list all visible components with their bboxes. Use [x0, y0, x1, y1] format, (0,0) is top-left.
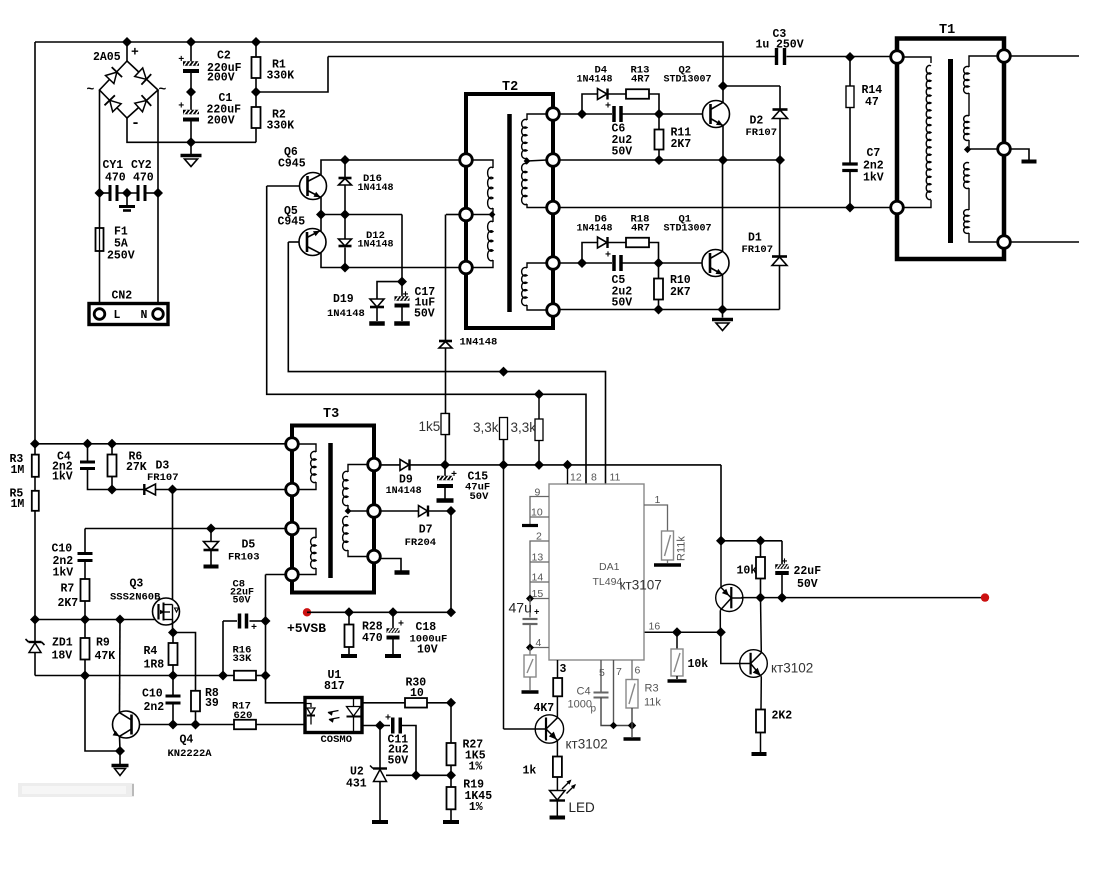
svg-text:50V: 50V: [233, 596, 251, 607]
svg-text:1N4148: 1N4148: [358, 240, 394, 251]
svg-text:D3: D3: [156, 460, 170, 473]
svg-text:+: +: [178, 102, 184, 113]
svg-text:4R7: 4R7: [631, 223, 650, 235]
svg-text:кт3102: кт3102: [771, 661, 813, 676]
svg-text:C18: C18: [416, 621, 437, 634]
svg-text:+: +: [178, 55, 184, 66]
svg-text:15: 15: [532, 588, 544, 600]
svg-text:TL494: TL494: [593, 576, 623, 588]
svg-text:R11k: R11k: [676, 536, 688, 561]
svg-text:D2: D2: [750, 115, 764, 128]
svg-text:47: 47: [865, 96, 879, 109]
svg-text:3: 3: [560, 663, 567, 676]
svg-text:ZD1: ZD1: [52, 637, 73, 650]
svg-text:2: 2: [536, 531, 542, 543]
svg-text:4R7: 4R7: [631, 74, 650, 86]
svg-text:14: 14: [532, 572, 544, 584]
svg-text:FR107: FR107: [147, 472, 179, 484]
svg-text:13: 13: [532, 552, 544, 564]
svg-text:~: ~: [87, 82, 95, 97]
svg-text:1N4148: 1N4148: [358, 183, 394, 194]
svg-text:8: 8: [591, 472, 597, 484]
svg-text:T3: T3: [323, 407, 339, 422]
svg-text:~: ~: [159, 82, 167, 97]
svg-text:330K: 330K: [267, 120, 295, 133]
svg-text:3,3k: 3,3k: [473, 420, 499, 435]
svg-text:+: +: [782, 558, 788, 569]
svg-text:6: 6: [635, 665, 641, 677]
svg-text:5A: 5A: [114, 237, 128, 250]
svg-text:T1: T1: [939, 23, 955, 38]
svg-text:кт3102: кт3102: [566, 737, 608, 752]
svg-text:C10: C10: [52, 542, 73, 555]
svg-text:7: 7: [616, 666, 622, 678]
svg-text:431: 431: [346, 778, 367, 791]
svg-text:470: 470: [105, 171, 126, 184]
svg-text:T2: T2: [502, 80, 518, 95]
svg-text:2K2: 2K2: [772, 710, 793, 723]
svg-text:50V: 50V: [612, 297, 633, 310]
svg-text:4K7: 4K7: [534, 702, 555, 715]
svg-text:10k: 10k: [688, 658, 709, 671]
svg-text:1M: 1M: [11, 464, 25, 477]
svg-text:1N4148: 1N4148: [460, 337, 498, 349]
svg-text:1%: 1%: [469, 761, 483, 774]
svg-text:+: +: [131, 45, 139, 60]
svg-text:D5: D5: [242, 539, 256, 552]
svg-text:LED: LED: [569, 800, 596, 815]
svg-text:12: 12: [570, 472, 582, 484]
svg-text:KN2222A: KN2222A: [168, 748, 213, 760]
svg-text:1N4148: 1N4148: [386, 486, 422, 497]
svg-text:+: +: [451, 470, 457, 481]
svg-text:D19: D19: [333, 293, 354, 306]
svg-text:R4: R4: [144, 645, 158, 658]
svg-text:4: 4: [536, 637, 542, 649]
svg-text:+5VSB: +5VSB: [287, 621, 326, 636]
svg-text:CN2: CN2: [112, 290, 133, 303]
svg-text:D1: D1: [748, 232, 762, 245]
svg-text:2n2: 2n2: [144, 701, 165, 714]
svg-text:COSMO: COSMO: [321, 734, 353, 746]
svg-text:9: 9: [535, 487, 541, 499]
svg-text:FR107: FR107: [746, 127, 778, 139]
svg-text:47K: 47K: [95, 650, 116, 663]
svg-text:R7: R7: [61, 582, 75, 595]
svg-text:C945: C945: [278, 216, 306, 229]
svg-text:2K7: 2K7: [671, 138, 692, 151]
svg-text:33K: 33K: [233, 653, 253, 665]
svg-text:p: p: [591, 704, 597, 715]
svg-text:CY2: CY2: [131, 159, 152, 172]
svg-text:817: 817: [324, 680, 345, 693]
svg-text:250V: 250V: [776, 39, 804, 52]
svg-text:U2: U2: [350, 766, 364, 779]
svg-text:250V: 250V: [107, 249, 135, 262]
svg-text:1kV: 1kV: [53, 567, 74, 580]
svg-text:10: 10: [410, 687, 424, 700]
svg-text:+: +: [385, 714, 391, 725]
svg-text:C2: C2: [217, 50, 231, 63]
svg-text:10: 10: [531, 507, 543, 519]
svg-text:1k5: 1k5: [419, 419, 441, 434]
svg-text:STD13007: STD13007: [664, 224, 712, 235]
svg-text:1%: 1%: [469, 801, 483, 814]
svg-text:+: +: [605, 251, 611, 262]
svg-text:1u: 1u: [756, 39, 770, 52]
svg-text:N: N: [141, 309, 148, 322]
svg-text:10k: 10k: [737, 565, 758, 578]
svg-text:+: +: [605, 102, 611, 113]
svg-text:+: +: [403, 291, 409, 302]
svg-text:1R8: 1R8: [144, 658, 165, 671]
svg-text:CY1: CY1: [103, 159, 124, 172]
svg-text:Q3: Q3: [130, 578, 144, 591]
svg-text:27K: 27K: [126, 461, 147, 474]
svg-text:50V: 50V: [612, 146, 633, 159]
svg-text:620: 620: [234, 710, 253, 722]
svg-text:SSS2N60B: SSS2N60B: [110, 592, 161, 604]
svg-text:-: -: [131, 115, 140, 132]
svg-text:C4: C4: [577, 686, 591, 698]
svg-text:18V: 18V: [52, 650, 73, 663]
svg-text:2K7: 2K7: [58, 597, 79, 610]
svg-text:200V: 200V: [207, 115, 235, 128]
svg-text:C7: C7: [867, 147, 881, 160]
svg-text:39: 39: [205, 697, 219, 710]
svg-text:50V: 50V: [414, 308, 435, 321]
svg-text:кт3107: кт3107: [620, 578, 662, 593]
svg-text:50V: 50V: [797, 578, 818, 591]
svg-text:R3: R3: [645, 683, 659, 695]
svg-text:C10: C10: [142, 688, 163, 701]
svg-text:DA1: DA1: [599, 561, 620, 573]
svg-text:Q4: Q4: [180, 734, 194, 747]
svg-text:470: 470: [133, 171, 154, 184]
svg-text:2K7: 2K7: [670, 286, 691, 299]
svg-text:16: 16: [649, 621, 661, 633]
svg-text:200V: 200V: [207, 72, 235, 85]
svg-text:D7: D7: [419, 523, 433, 536]
svg-text:5: 5: [599, 667, 605, 679]
svg-text:+: +: [251, 623, 257, 634]
svg-text:1N4148: 1N4148: [327, 308, 365, 320]
svg-text:470: 470: [362, 632, 383, 645]
svg-text:1N4148: 1N4148: [577, 224, 613, 235]
svg-text:+: +: [534, 608, 539, 618]
svg-text:2A05: 2A05: [93, 51, 121, 64]
svg-text:1M: 1M: [11, 498, 25, 511]
svg-text:330K: 330K: [267, 70, 295, 83]
svg-text:1: 1: [655, 494, 661, 506]
svg-text:FR204: FR204: [405, 537, 437, 549]
svg-text:11: 11: [610, 472, 621, 484]
svg-text:R9: R9: [96, 637, 110, 650]
svg-text:1N4148: 1N4148: [577, 75, 613, 86]
svg-text:STD13007: STD13007: [664, 75, 712, 86]
svg-text:11k: 11k: [644, 697, 661, 709]
svg-text:47u: 47u: [509, 600, 532, 616]
svg-text:1kV: 1kV: [52, 471, 73, 484]
svg-text:+: +: [398, 620, 404, 631]
svg-text:10V: 10V: [417, 644, 438, 657]
svg-text:50V: 50V: [388, 755, 409, 768]
svg-text:C945: C945: [278, 158, 306, 171]
svg-text:FR103: FR103: [228, 552, 260, 564]
svg-text:22uF: 22uF: [794, 565, 822, 578]
svg-text:FR107: FR107: [742, 244, 774, 256]
svg-text:1k: 1k: [523, 765, 537, 778]
svg-text:D9: D9: [399, 474, 413, 487]
svg-text:1000: 1000: [568, 699, 592, 711]
svg-text:50V: 50V: [470, 491, 490, 503]
svg-text:3,3k: 3,3k: [511, 420, 537, 435]
svg-text:L: L: [114, 309, 121, 322]
svg-text:1kV: 1kV: [863, 172, 884, 185]
